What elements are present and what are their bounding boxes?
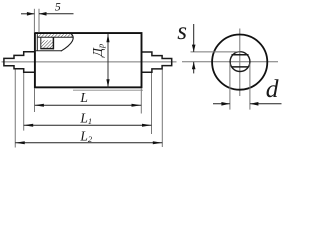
svg-text:L: L [79, 90, 88, 105]
svg-text:s: s [177, 18, 187, 45]
svg-text:5: 5 [55, 0, 61, 14]
svg-text:d: d [266, 74, 279, 103]
